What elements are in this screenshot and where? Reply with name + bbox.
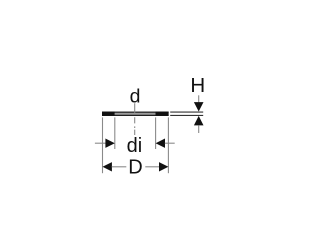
di dimension right tail: [165, 142, 175, 144]
gasket top outline: [102, 112, 169, 113]
centerline (dash-dot), drawn as explicit dash segments: [134, 103, 136, 135]
svg-text:d: d: [130, 86, 141, 108]
extension line D-left: [102, 117, 104, 173]
gasket left black end segment: [102, 112, 115, 116]
svg-text:D: D: [128, 157, 142, 179]
gasket right black end segment: [156, 112, 169, 116]
H extension line bottom: [170, 114, 203, 116]
H dimension upper leader line: [198, 95, 200, 102]
gasket bottom outline: [102, 115, 169, 116]
H dimension lower leader line: [198, 125, 200, 133]
D dimension line left segment: [112, 166, 127, 168]
extension line D-right: [167, 117, 169, 173]
D dimension line right segment: [145, 166, 159, 168]
di dimension left tail: [95, 142, 106, 144]
svg-text:H: H: [190, 74, 205, 97]
D dimension left arrowhead: [103, 162, 112, 171]
H dimension up arrowhead: [194, 116, 204, 126]
svg-text:di: di: [127, 135, 143, 157]
extension line di-right: [155, 117, 157, 149]
di dimension right arrowhead: [156, 139, 165, 148]
H extension line top: [170, 111, 203, 113]
extension line di-left: [114, 117, 116, 149]
gasket cross-section bar (gray fill): [102, 112, 169, 116]
H dimension down arrowhead: [194, 102, 204, 111]
di dimension left arrowhead: [105, 139, 114, 148]
D dimension right arrowhead: [159, 162, 168, 171]
